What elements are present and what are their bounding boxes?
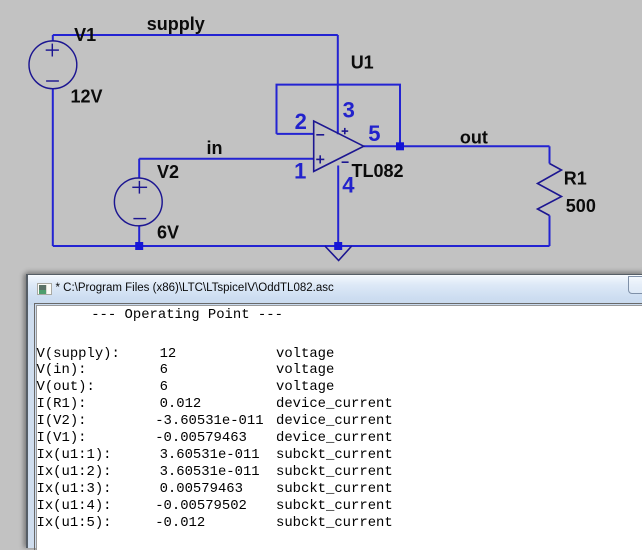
node junction V2/ground rail <box>135 242 143 250</box>
op-amp U1 triangle <box>314 121 364 171</box>
wire R1 bottom lead <box>549 216 551 247</box>
voltage source V2 <box>114 178 162 226</box>
content area <box>34 303 642 550</box>
title bar gradient <box>28 275 642 305</box>
ground <box>325 246 352 261</box>
wire feedback loop <box>277 85 401 147</box>
wire U1 pin 2 stub <box>277 133 314 135</box>
wire supply horizontal <box>53 34 338 36</box>
wire V2 top stub <box>138 159 140 179</box>
window icon <box>37 283 52 295</box>
voltage source V1 <box>29 41 77 89</box>
wire in net <box>139 158 314 160</box>
wire supply vertical to U1 pin 3 <box>337 35 339 134</box>
wire out net <box>364 145 550 147</box>
wire V1 bottom to ground rail <box>52 88 54 246</box>
wire U1 pin 4 vertical to ground <box>337 166 339 247</box>
wire V2 bottom stub <box>138 225 140 246</box>
title text <box>56 282 334 294</box>
results window <box>26 274 642 548</box>
schematic SVG <box>0 0 642 273</box>
caption buttons outline <box>628 276 642 294</box>
wire R1 top lead <box>549 146 551 163</box>
resistor R1 <box>538 164 562 216</box>
node junction ground <box>334 242 342 250</box>
wire bottom rail <box>53 245 550 247</box>
node junction out/feedback <box>396 142 404 150</box>
wire V1 top stub <box>52 35 54 42</box>
